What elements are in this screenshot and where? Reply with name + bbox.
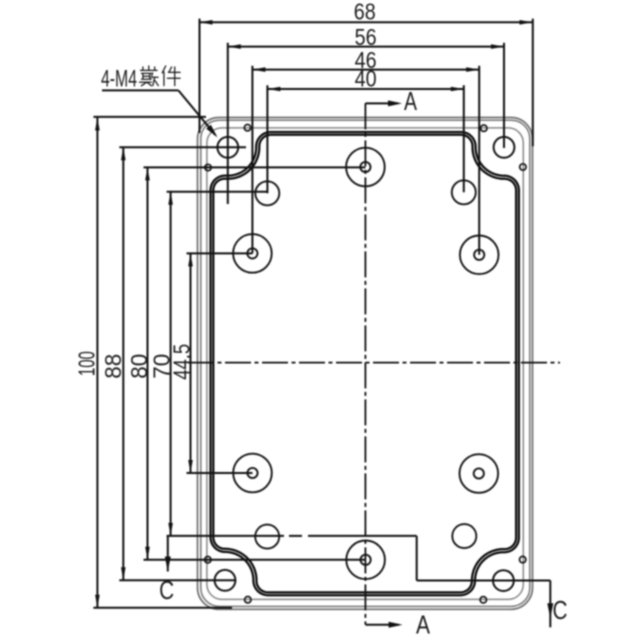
section A bottom marker: [366, 624, 399, 626]
pin hole: [480, 597, 486, 603]
svg-text:4-M4: 4-M4: [101, 66, 137, 93]
seal groove outer line: [211, 132, 519, 595]
svg-text:A: A: [404, 86, 417, 116]
dim 100 line: [96, 118, 98, 608]
M4 insert hole top-right: [494, 137, 515, 158]
svg-text:A: A: [416, 610, 431, 640]
lid step line: [207, 128, 523, 600]
pin hole: [245, 597, 251, 603]
section C step line: [167, 535, 284, 537]
section C left marker: [167, 536, 169, 572]
M4 insert hole bottom-right: [493, 570, 514, 591]
dim 68 line: [200, 21, 533, 23]
pin hole: [205, 164, 211, 170]
svg-text:68: 68: [354, 0, 376, 25]
svg-text:56: 56: [355, 24, 377, 50]
leader text CJK 件: [162, 66, 166, 74]
svg-text:100: 100: [74, 351, 100, 376]
svg-text:88: 88: [100, 354, 126, 379]
seal groove inner line: [213, 135, 516, 593]
dim 80 ext lines: [144, 166, 366, 168]
dim 40 line: [267, 88, 463, 90]
dim 44.5 line: [190, 253, 192, 473]
dim 56 line: [228, 46, 504, 48]
horizontal centerline: [188, 362, 560, 364]
svg-text:44.5: 44.5: [168, 344, 194, 380]
dim 80 line: [147, 167, 149, 559]
dim 44.5 ext lines: [187, 252, 253, 254]
boss bottom-center: [346, 541, 385, 580]
boss lower-right: [460, 454, 499, 493]
svg-text:C: C: [159, 575, 174, 605]
counterbore circle: [255, 181, 279, 205]
dim 70 ext line top: [167, 191, 268, 193]
pin hole: [520, 164, 526, 170]
vertical centerline / section A line: [364, 103, 366, 624]
section C right marker: [549, 581, 551, 628]
pin hole: [244, 125, 250, 131]
boss upper-left: [233, 234, 272, 273]
M4 insert hole bottom-left: [215, 570, 236, 591]
leader text CJK 嵌: [142, 66, 144, 70]
pin hole: [205, 557, 211, 563]
boss top-center: [346, 148, 385, 187]
counterbore circle: [452, 524, 476, 548]
dim 100 ext lines: [93, 116, 206, 118]
boss upper-right: [460, 236, 499, 275]
boss lower-left: [233, 454, 272, 493]
svg-text:C: C: [553, 595, 568, 625]
M4 insert hole top-left: [217, 137, 238, 158]
pin hole: [481, 125, 487, 131]
svg-text:40: 40: [355, 66, 377, 92]
dim 88 line: [122, 147, 124, 580]
dim 46 ext lines: [251, 66, 253, 254]
counterbore circle: [255, 525, 279, 549]
section A top marker: [365, 102, 398, 104]
counterbore circle: [452, 180, 476, 204]
outer enclosure edge: [198, 118, 533, 610]
leader line 4-M4: [102, 89, 178, 91]
dim 68 ext lines: [199, 19, 201, 133]
dim 70 line: [170, 192, 172, 536]
dim 40 ext lines: [266, 85, 268, 193]
enclosure edge second line: [201, 120, 530, 606]
dim 46 line: [252, 69, 479, 71]
dim 56 ext lines: [227, 43, 229, 204]
pin hole: [520, 556, 526, 562]
dim 88 ext lines: [119, 146, 246, 148]
